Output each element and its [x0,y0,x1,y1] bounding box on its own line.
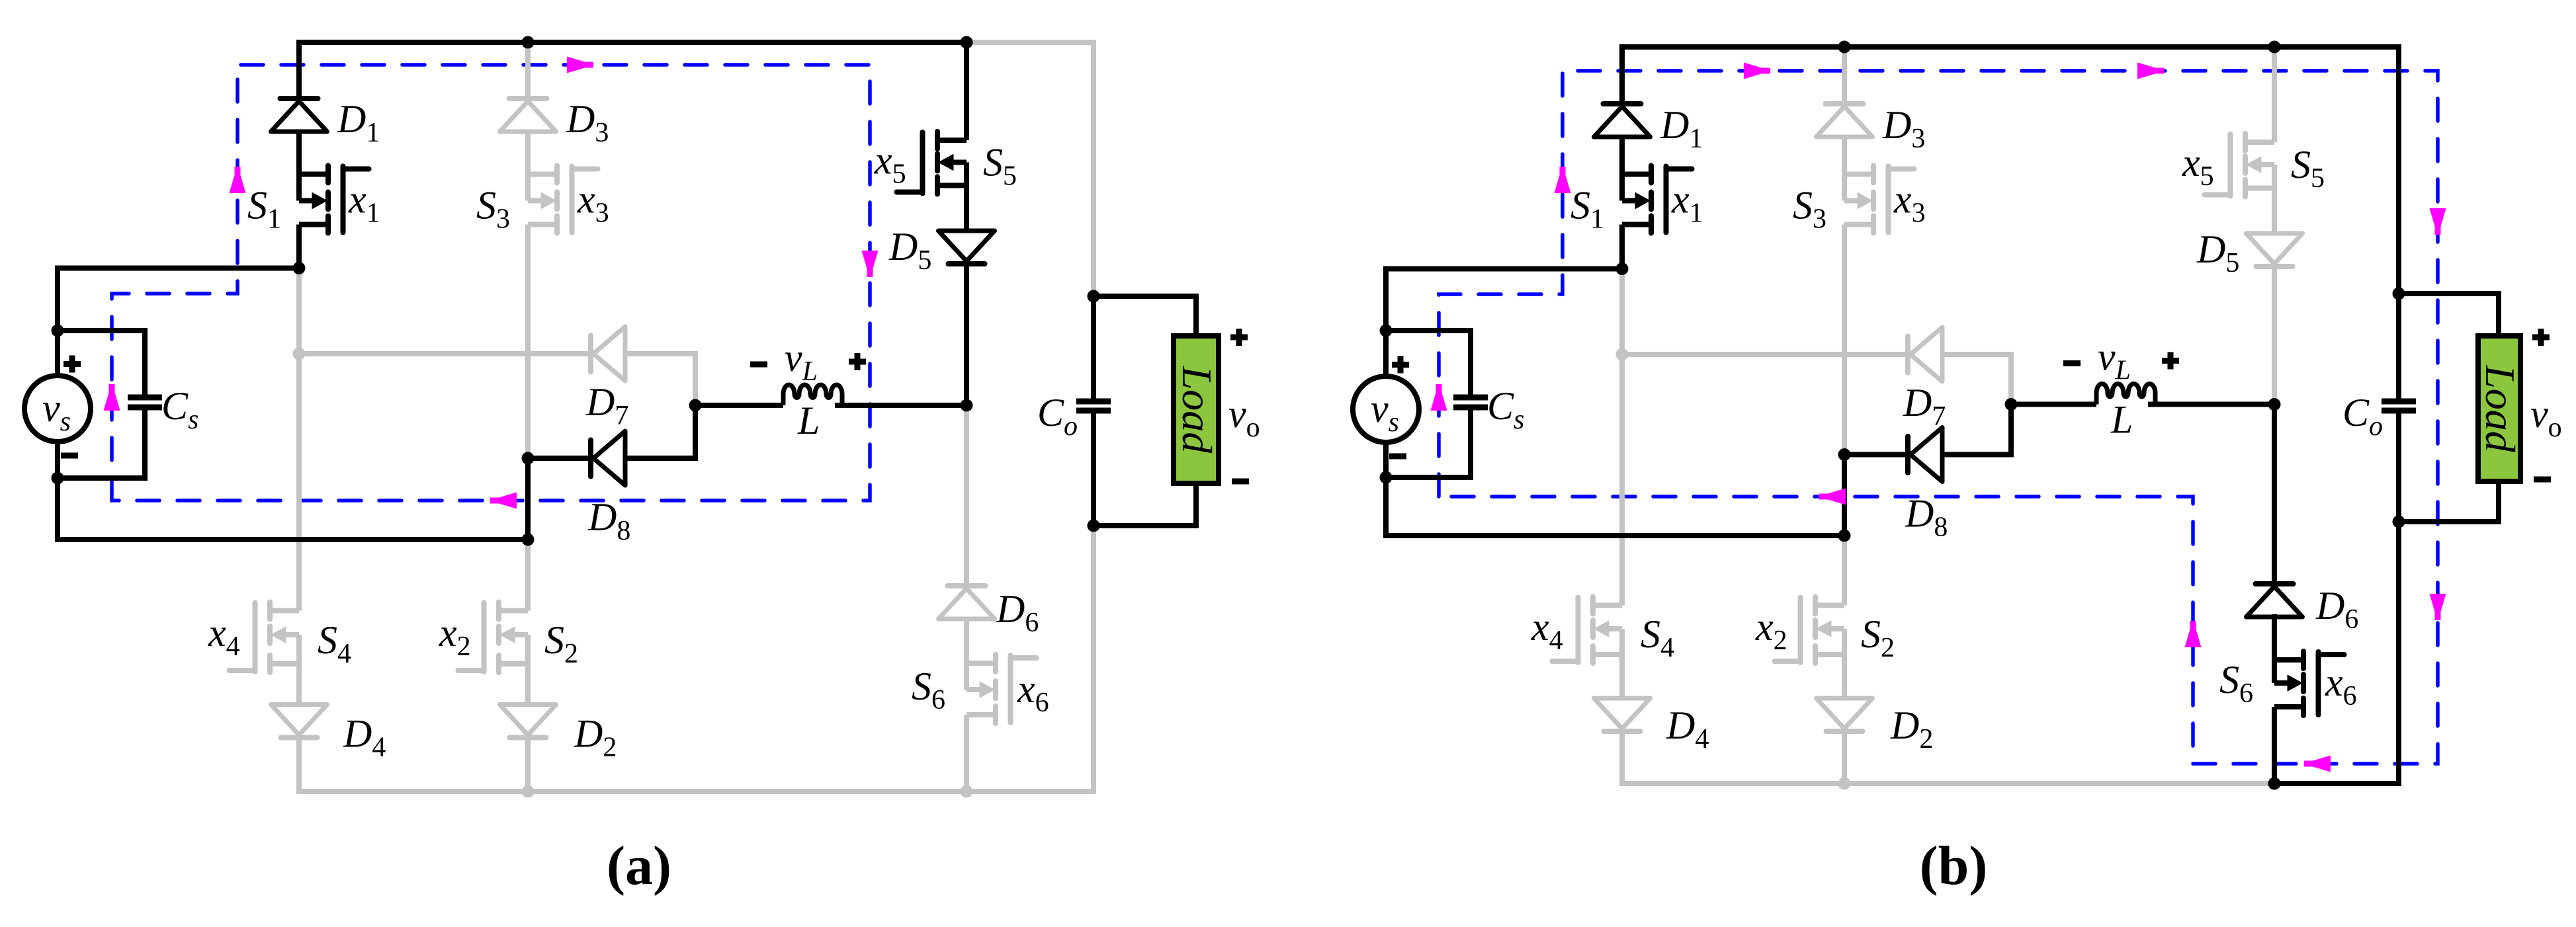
wire rail down to S5 (grey) [2272,47,2277,142]
node junction (grey) [1838,778,1851,790]
wire Cs branch top [58,328,145,333]
wire inductor node down to D6 [2272,405,2277,584]
wire S3 source down to D8 node [525,225,531,459]
current flow arrow [104,384,120,411]
node junction [1838,41,1851,54]
wire D1 to S1 [296,132,302,175]
node junction [1838,530,1851,542]
transistor S1 [1622,172,1651,177]
wire D6 to S6 [964,619,969,663]
wire D1 to S1 [1619,136,1625,175]
polarity + vo [1230,329,1248,346]
node junction [2268,778,2281,790]
wire S1 source to node [1619,225,1625,269]
load block [2478,336,2520,481]
wire S2 leg from bottom rail [525,540,531,611]
node junction [2268,41,2281,54]
wire D8 node down to bottom rail [525,458,531,540]
polarity + vs [1392,356,1409,374]
wire D5 to inductor node (grey) [2272,266,2277,405]
wire inductor node down to D6 (grey) [964,405,969,586]
wire top rail [1622,47,2399,294]
diode D2 [500,705,556,735]
wire rail down to S5 [964,42,969,140]
wire D6 to S6 [2272,614,2277,660]
current flow arrow [230,167,246,193]
wire S1 node to source vs [58,266,299,271]
wire D7 to bend [625,354,695,405]
wire dashed current loop (a) [112,65,870,501]
transistor S3 [1844,172,1873,177]
transistor S2 [499,608,528,614]
diode D1 [1604,101,1641,106]
wire bottom rail [58,537,528,542]
diode D3 [1826,101,1864,106]
node junction [1088,520,1100,532]
node junction [2268,398,2281,411]
diode D4 [1594,698,1651,729]
wire load branch bottom [2399,481,2499,522]
wire inductor right lead [835,403,966,408]
label vL minus [2063,360,2081,366]
wire Cs lower lead [58,407,145,478]
wire S1 node to source vs [1386,266,1622,272]
wire inductor left lead [695,403,783,408]
current flow arrow [567,57,593,73]
wire Cs lower lead [1386,407,1471,477]
capacitor Cs [128,395,162,401]
wire S4 leg from S1 source node [296,268,302,611]
capacitor Cs [1453,395,1488,401]
diode D1 [280,96,318,101]
current flow arrow [1744,63,1770,79]
diode D3 [509,96,547,101]
wire Cs branch top [1386,328,1471,333]
transistor S5 [2245,140,2274,145]
diode D6 [948,583,986,588]
wire D7 to bend [1942,354,2011,405]
wire S2 to D2 [1842,655,1847,698]
wire S3 leg upper (grey) [1842,47,1847,104]
wire D5 to inductor node [964,264,969,405]
polarity + vo [2532,329,2550,346]
wire D4 to bottom grey rail [296,738,302,795]
node junction [522,36,535,49]
wire D8 node down to bottom rail [1842,455,1847,536]
current flow arrow [2185,621,2202,647]
polarity - vs [61,453,78,459]
wire S6 source to bottom rail [964,715,969,791]
node junction (grey) [1616,348,1629,361]
wire dashed current loop (b) [1439,71,2438,764]
wire vs branch upper [55,266,60,376]
transistor S4 [270,608,299,614]
diode D5 [939,231,995,261]
wire D2 to bottom grey rail [525,738,531,792]
wire D3 to S3 [1842,136,1847,175]
svg-text:(a): (a) [607,835,671,897]
node junction [1380,471,1393,484]
node junction (grey) [522,786,535,798]
node junction [961,36,973,49]
wire S3 leg upper (grey) [525,42,531,99]
node junction [689,399,702,412]
wire vs branch lower [55,442,60,542]
polarity - vo [2534,477,2551,483]
node junction [961,399,973,412]
diode D4 [271,705,327,735]
wire bottom grey rail [299,526,1094,791]
wire S4 to D4 [1619,655,1625,698]
wire D8 anode to bend [1942,405,2011,455]
wire D1 anode lead from rail [296,40,302,99]
wire D8 cathode lead [1844,452,1908,458]
wire S2 to D2 [525,664,531,705]
voltage source vs [24,376,91,442]
node junction (grey) [293,348,306,360]
voltage source vs [1353,376,1419,442]
wire inductor left lead [2011,402,2096,407]
diode D7 freewheel (grey) [1905,337,1911,373]
wire S4 leg from S1 source node [1619,269,1625,606]
node junction [522,534,535,546]
wire Co upper lead [1091,296,1096,401]
node junction [52,472,64,485]
wire middle grey rail [299,351,591,356]
wire top rail inactive segment (grey) [966,42,1094,296]
transistor S1 [299,172,328,177]
node junction (grey) [961,786,973,798]
diode D2 [1817,698,1873,729]
node junction [1616,262,1629,275]
inductor L [783,385,842,405]
node junction [522,452,535,465]
node junction [2393,516,2405,528]
svg-text:L: L [797,399,820,442]
wire Co lower lead [2396,411,2401,522]
diode D6 [2256,581,2294,586]
wire vs branch lower [1383,442,1389,538]
wire Co upper lead [2396,294,2401,401]
polarity - vo [1232,479,1249,485]
svg-text:(b): (b) [1920,835,1988,897]
wire D8 cathode lead [528,456,591,461]
diode D8 [588,440,593,477]
wire S2 leg from bottom rail [1842,536,1847,606]
wire bottom rail [1386,533,1844,538]
node junction [2393,288,2405,300]
transistor S5 [937,138,966,143]
node junction [52,325,64,337]
wire D1 anode lead from rail [1619,44,1625,104]
svg-text:Load: Load [2477,364,2524,453]
wire D8 anode to bend [625,405,695,458]
current flow arrow [1555,167,1571,193]
svg-text:Load: Load [1174,366,1221,454]
wire bottom right return [2274,522,2399,784]
wire inductor right lead [2148,402,2274,407]
current flow arrow [2304,756,2331,772]
inductor L [2096,384,2155,405]
current flow arrow [2137,63,2164,79]
diode D8 [1905,436,1911,473]
node junction [1088,290,1100,303]
node junction [1838,448,1851,461]
svg-text:L: L [2110,398,2133,442]
transistor S4 [1593,603,1622,608]
wire middle grey rail [1622,352,1908,357]
current flow arrow [490,493,517,509]
wire S1 source to node [296,225,302,268]
wire load branch top [2399,294,2499,336]
wire S5 source to D5 [964,186,969,231]
node junction [2005,398,2018,411]
transistor S6 [2274,657,2303,663]
wire top rail [299,40,966,45]
wire Cs upper lead [1468,328,1473,397]
wire Co lower lead [1091,411,1096,526]
current flow arrow [2430,594,2446,620]
diode D7 freewheel (grey) [588,336,593,372]
wire S6 source down [2272,707,2277,784]
node junction [293,262,306,274]
load block [1174,336,1219,483]
transistor S3 [528,172,557,177]
wire S3 source down to D8 node [1842,225,1847,455]
capacitor Co [2382,399,2416,405]
wire D2 to bottom grey rail [1842,729,1847,784]
wire bottom grey rail [1622,781,2274,786]
wire vs branch upper [1383,266,1389,377]
current flow arrow [1431,384,1447,411]
current flow arrow [862,251,879,277]
wire load branch bottom [1094,483,1196,526]
wire Cs upper lead [142,328,148,397]
label vL minus [750,362,767,368]
wire load branch top [1094,296,1196,336]
wire D4 to bottom grey rail [1619,729,1625,786]
current flow arrow [1819,489,1846,505]
capacitor Co [1076,399,1111,405]
label vL plus [2162,352,2179,370]
polarity - vs [1389,454,1406,460]
wire S4 to D4 [296,664,302,705]
wire S5 source to D5 [2272,188,2277,234]
transistor S6 [966,661,996,666]
diode D5 [2247,233,2303,264]
wire D3 to S3 [525,132,531,175]
label vL plus [849,353,866,370]
current flow arrow [2430,208,2446,235]
polarity + vs [64,356,81,373]
node junction [1380,325,1393,337]
transistor S2 [1815,603,1844,608]
